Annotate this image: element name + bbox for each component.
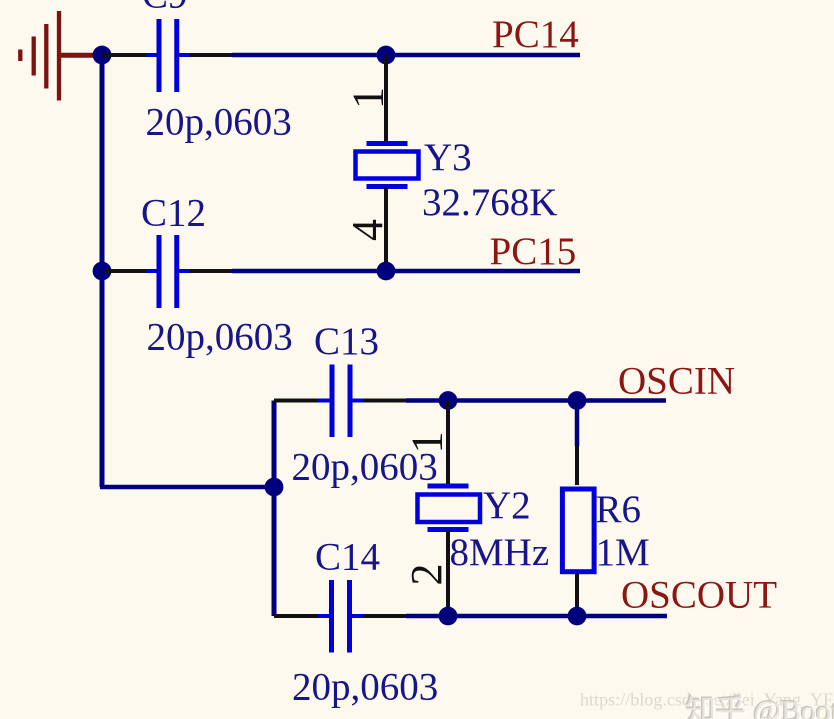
- svg-text:PC15: PC15: [490, 230, 577, 273]
- wire OSCIN row: [274, 399, 666, 403]
- wire trunk horizontal: [100, 485, 274, 490]
- svg-text:1: 1: [344, 87, 393, 109]
- svg-text:C12: C12: [141, 192, 206, 235]
- capacitor C9: [146, 19, 190, 92]
- node PC14 junction: [377, 46, 396, 65]
- wire: [102, 269, 146, 273]
- wire: [232, 53, 580, 58]
- ground: [20, 11, 97, 101]
- svg-text:4: 4: [343, 219, 392, 241]
- svg-text:R6: R6: [596, 488, 642, 531]
- svg-text:知乎 @Boot: 知乎 @Boot: [686, 695, 834, 719]
- wire branch vertical: [272, 401, 277, 617]
- svg-text:8MHz: 8MHz: [450, 531, 550, 574]
- svg-text:C9: C9: [142, 0, 188, 17]
- svg-text:Y2: Y2: [483, 484, 531, 527]
- svg-text:C13: C13: [314, 320, 379, 363]
- svg-text:20p,0603: 20p,0603: [146, 101, 292, 144]
- svg-text:2: 2: [402, 564, 451, 586]
- svg-text:OSCOUT: OSCOUT: [621, 574, 777, 617]
- node OSCIN R6 junction: [568, 391, 587, 410]
- wire: [190, 269, 232, 273]
- svg-text:PC14: PC14: [492, 13, 579, 56]
- node OSCIN Y2 junction: [439, 391, 458, 410]
- resistor R6: [562, 401, 594, 617]
- svg-text:20p,0603: 20p,0603: [147, 316, 293, 359]
- wire: [190, 53, 232, 57]
- wire: [102, 53, 146, 57]
- svg-text:OSCIN: OSCIN: [618, 360, 735, 403]
- capacitor C13: [318, 365, 364, 438]
- node OSCOUT Y2 junction: [439, 607, 458, 626]
- wire: [232, 269, 580, 274]
- crystal Y3: [356, 55, 419, 271]
- capacitor C12: [146, 235, 190, 308]
- node C12 junction: [93, 262, 112, 281]
- svg-text:Y3: Y3: [424, 136, 472, 179]
- svg-text:32.768K: 32.768K: [422, 181, 557, 224]
- crystal Y2: [418, 401, 481, 617]
- svg-text:20p,0603: 20p,0603: [292, 666, 438, 709]
- wire trunk vertical: [100, 55, 105, 487]
- capacitor C14: [318, 580, 364, 653]
- svg-text:C14: C14: [315, 536, 380, 579]
- node GND junction: [93, 46, 112, 65]
- node PC15 junction: [377, 262, 396, 281]
- node branch junction: [265, 478, 284, 497]
- svg-text:1: 1: [403, 432, 452, 454]
- node OSCOUT R6 junction: [568, 607, 587, 626]
- svg-text:1M: 1M: [596, 531, 650, 574]
- wire OSCOUT row: [274, 614, 667, 618]
